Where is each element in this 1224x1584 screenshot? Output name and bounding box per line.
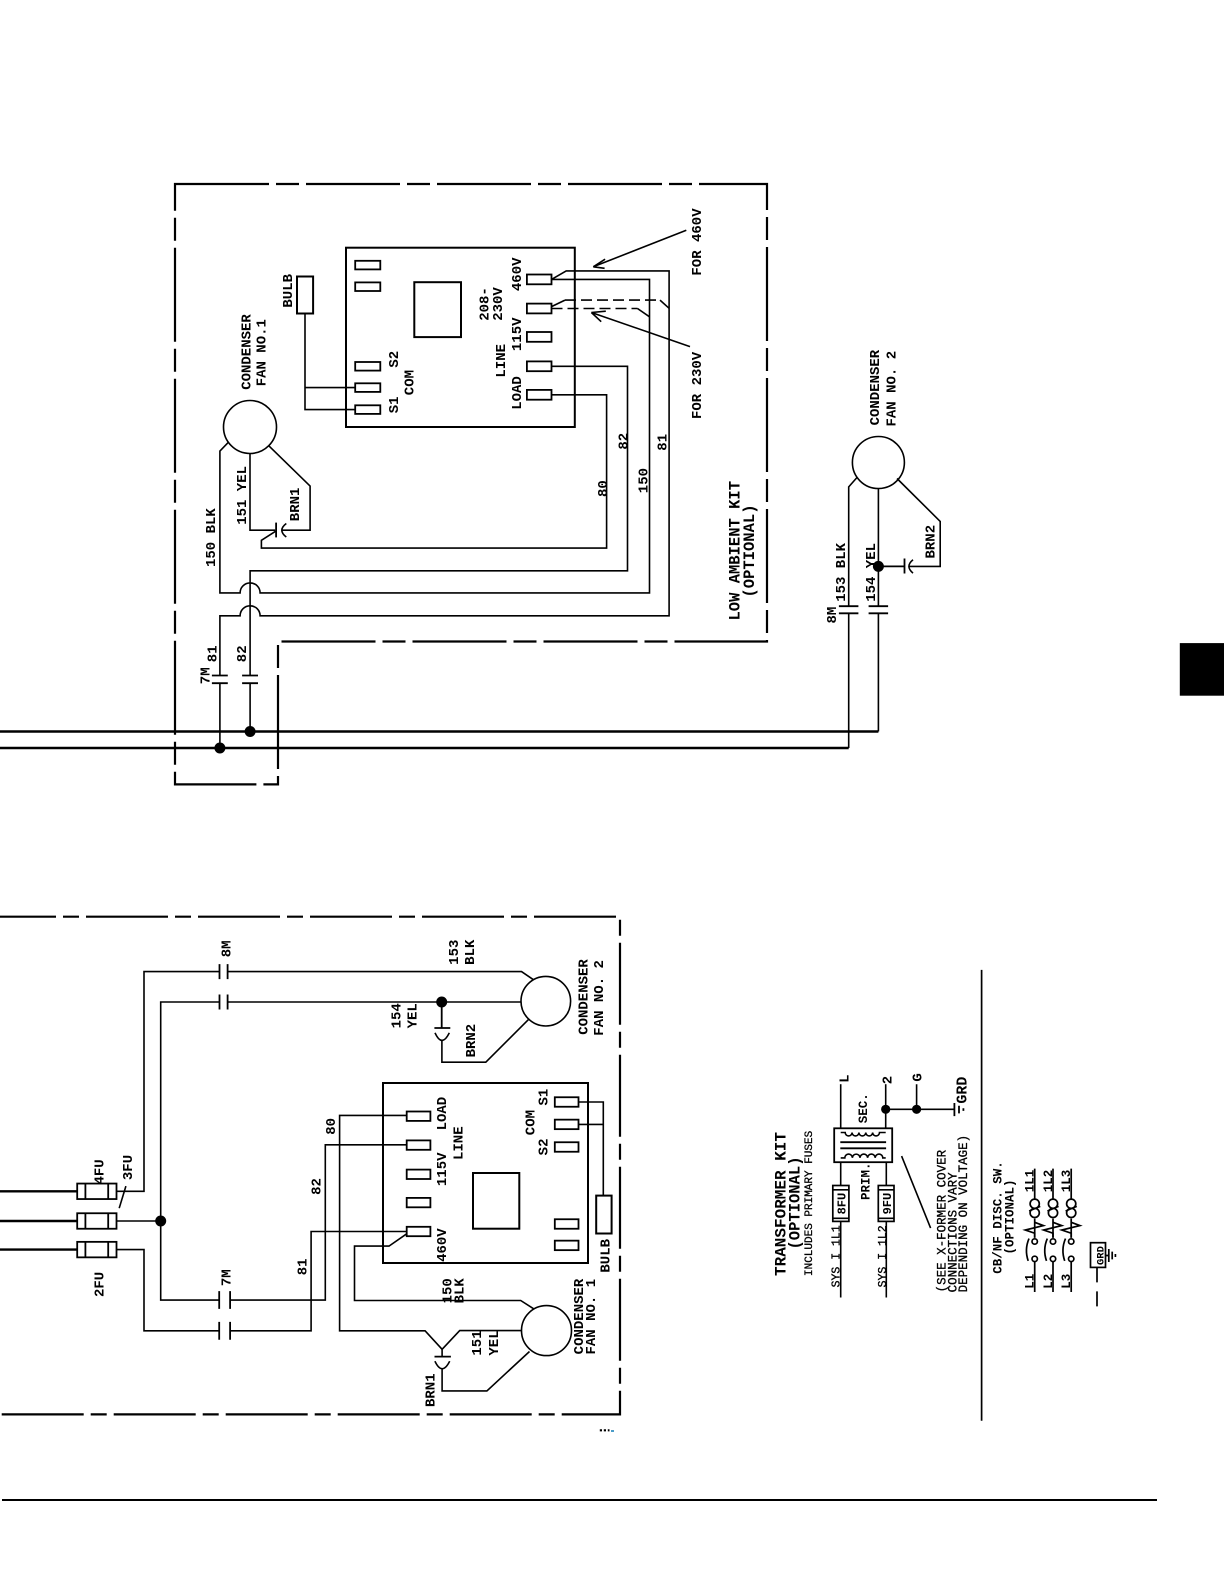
contact 7M-a plates (bottom): [219, 1291, 230, 1309]
capacitor BRN2 plate (top): [878, 559, 904, 574]
svg-text:BRN2: BRN2: [924, 525, 940, 559]
terminal 460V (bottom box): [407, 1227, 431, 1236]
wire 82 LINE terminal to 7M contact with riser: [250, 366, 627, 731]
GRD terminal box: [1091, 1243, 1106, 1268]
svg-text:153: 153: [447, 940, 463, 965]
terminal (unlabeled top-2): [355, 282, 380, 291]
svg-text:BRN2: BRN2: [464, 1024, 480, 1058]
svg-text:(OPTIONAL): (OPTIONAL): [786, 1156, 804, 1249]
svg-text:154: 154: [390, 1003, 406, 1028]
fuse 4FU: [77, 1184, 116, 1200]
svg-text:230V: 230V: [491, 287, 507, 321]
svg-text:82: 82: [235, 645, 251, 662]
contact 7M-b plates (bottom): [219, 1322, 230, 1340]
contact 7M-81 plates: [212, 676, 228, 684]
terminal S1 (top box): [355, 405, 380, 414]
svg-text:151: 151: [470, 1330, 486, 1355]
bottom rule: [2, 1499, 1157, 1501]
svg-text:FOR 460V: FOR 460V: [690, 208, 706, 276]
terminal 208-230V (bottom box): [407, 1198, 431, 1207]
svg-text:L1: L1: [1024, 1274, 1038, 1289]
svg-text:S2: S2: [387, 351, 403, 368]
svg-text:S2: S2: [537, 1138, 553, 1155]
terminal S2 (top box): [355, 362, 380, 371]
svg-text:4FU: 4FU: [93, 1159, 109, 1184]
terminal 115V (top box): [527, 332, 552, 342]
terminal 208-230V (top box): [527, 304, 552, 314]
svg-text:FOR 230V: FOR 230V: [690, 351, 706, 419]
feed wire L2: [0, 1220, 77, 1222]
svg-text:CONDENSER: CONDENSER: [239, 314, 255, 390]
wire primary 1L1: [840, 1162, 842, 1297]
capacitor BRN1 curved plate (bottom): [435, 1361, 450, 1369]
svg-text:81: 81: [296, 1258, 312, 1275]
svg-text:S1: S1: [537, 1089, 553, 1106]
svg-text:2: 2: [881, 1076, 897, 1084]
svg-text:151 YEL: 151 YEL: [235, 466, 251, 525]
junction dot 3FU: [155, 1216, 166, 1227]
capacitor BRN2 curved plate (bottom): [435, 1033, 449, 1041]
terminal COM (bottom box): [555, 1120, 579, 1130]
low ambient kit dashed enclosure: [175, 184, 767, 784]
svg-text:(OPTIONAL): (OPTIONAL): [741, 504, 759, 597]
wire 2 secondary with dot: [885, 1084, 887, 1128]
svg-text:9FU: 9FU: [881, 1193, 895, 1215]
svg-text:LOAD: LOAD: [510, 376, 526, 410]
GRD earth symbol: [1106, 1249, 1116, 1262]
svg-text:FAN NO.1: FAN NO.1: [254, 319, 270, 386]
bulb (bottom): [596, 1196, 611, 1234]
fuse 8FU: [833, 1186, 849, 1222]
wire primary 1L2: [885, 1162, 887, 1297]
page tab marker: [1180, 643, 1224, 696]
condenser fan no.2 motor (top): [852, 437, 904, 489]
wire 80 LOAD terminal to capacitor junction: [261, 395, 606, 548]
terminal unlabeled-2 (bottom box): [555, 1241, 579, 1251]
svg-text:SYS I 1L2: SYS I 1L2: [877, 1225, 890, 1287]
svg-text:YEL: YEL: [406, 1003, 422, 1028]
junction dot 154-BRN2: [873, 561, 884, 572]
leader 3FU: [119, 1186, 126, 1208]
print artifact marks: [600, 1429, 610, 1431]
wire 4FU to 8M contact to fan2 BLK: [117, 972, 534, 1192]
wire 80 LOAD to BRN1 capacitor (bottom): [340, 1115, 443, 1349]
transformer T1 core box: [834, 1128, 892, 1162]
wire BRN1 capacitor to fan1 (bottom): [442, 1352, 529, 1391]
svg-text:460V: 460V: [510, 257, 526, 291]
fan speed control box (bottom): [383, 1083, 588, 1263]
svg-text:460V: 460V: [435, 1228, 451, 1262]
arrow FOR 460V: [593, 230, 686, 267]
wire dot to G and ground: [886, 1084, 955, 1109]
svg-text:1L2: 1L2: [1042, 1170, 1056, 1193]
feed wire L1: [0, 1190, 77, 1192]
fan speed control box (top): [346, 248, 575, 427]
disconnect pole L1/1L1: [1034, 1169, 1036, 1292]
svg-text:82: 82: [310, 1178, 326, 1195]
svg-text:BRN1: BRN1: [424, 1373, 440, 1407]
svg-text:L2: L2: [1042, 1274, 1056, 1289]
svg-text:(OPTIONAL): (OPTIONAL): [1003, 1179, 1017, 1254]
svg-text:7M: 7M: [219, 1269, 235, 1286]
svg-text:154 YEL: 154 YEL: [864, 543, 880, 602]
svg-text:1L1: 1L1: [1024, 1170, 1038, 1193]
svg-text:1L3: 1L3: [1060, 1170, 1074, 1193]
svg-text:CONDENSER: CONDENSER: [868, 349, 884, 425]
svg-text:8FU: 8FU: [836, 1193, 850, 1215]
wire BRN2 capacitor to fan2 (bottom): [442, 1019, 529, 1062]
terminal S2 (bottom box): [555, 1142, 579, 1152]
terminal 460V (top box): [527, 275, 552, 285]
wire 154 YEL fan2 to upper bus: [877, 489, 879, 732]
for-230V dashed alternate wire to 150: [552, 308, 638, 310]
terminal LOAD (top box): [527, 390, 552, 400]
wire 151 YEL fan1 to BRN1 capacitor (bottom): [442, 1331, 521, 1357]
svg-text:G: G: [911, 1073, 927, 1081]
terminal (unlabeled top-1): [355, 261, 380, 270]
capacitor BRN1 curved plate (top): [282, 524, 287, 538]
wire 153 BLK fan2 to lower bus: [849, 477, 857, 748]
svg-text:81: 81: [205, 645, 221, 662]
svg-text:GRD: GRD: [954, 1077, 971, 1104]
svg-text:BULB: BULB: [281, 273, 297, 307]
capacitor BRN2 curved plate (top): [909, 560, 913, 573]
svg-text:81: 81: [656, 434, 672, 451]
fuse 9FU: [878, 1186, 894, 1222]
svg-text:150: 150: [637, 468, 653, 493]
svg-text:SYS I 1L1: SYS I 1L1: [831, 1225, 844, 1287]
condenser fan no.1 motor (top): [224, 401, 277, 454]
transformer primary winding: [841, 1154, 886, 1158]
for-460V dashed alternate wire to 81: [552, 300, 566, 307]
svg-text:YEL: YEL: [487, 1330, 503, 1355]
contact 8M-154 plates (top): [869, 606, 889, 613]
svg-text:DEPENDING ON VOLTAGE): DEPENDING ON VOLTAGE): [957, 1135, 971, 1293]
fuse 3FU: [77, 1213, 116, 1229]
svg-text:115V: 115V: [510, 317, 526, 351]
svg-text:PRIM.: PRIM.: [860, 1162, 874, 1200]
main unit dashed enclosure: [0, 917, 620, 1415]
svg-text:L: L: [838, 1074, 854, 1082]
wire S1/COM to bulb (bottom): [579, 1102, 604, 1196]
capacitor BRN2 plate (bottom): [434, 1002, 450, 1028]
contact 7M-82 plates: [242, 676, 258, 684]
feed wire L3: [0, 1248, 77, 1250]
GRD dashed wire: [1096, 1267, 1098, 1312]
junction dot 81-lower bus: [214, 743, 225, 754]
contact 8M-a plates (bottom): [220, 964, 228, 979]
svg-text:80: 80: [596, 480, 612, 497]
disconnect pole L3/1L3: [1070, 1169, 1072, 1292]
svg-text:S1: S1: [387, 396, 403, 413]
svg-text:LINE: LINE: [494, 344, 510, 378]
svg-text:FAN NO. 1: FAN NO. 1: [584, 1279, 600, 1355]
wire L secondary: [840, 1084, 842, 1128]
arrow FOR 230V: [591, 313, 690, 347]
svg-text:8M: 8M: [825, 607, 841, 624]
wire BRN1 capacitor to fan1: [269, 446, 310, 531]
transformer core lines: [840, 1142, 886, 1148]
separator line: [981, 970, 983, 1421]
svg-text:COM: COM: [524, 1110, 540, 1135]
leader x-former note: [902, 1156, 931, 1228]
svg-text:153 BLK: 153 BLK: [834, 542, 850, 601]
terminal LOAD (bottom box): [407, 1112, 431, 1121]
svg-text:COM: COM: [402, 370, 418, 395]
terminal LINE (bottom box): [407, 1140, 431, 1149]
lower bus wire: [0, 747, 849, 749]
svg-text:FAN NO. 2: FAN NO. 2: [885, 351, 901, 427]
terminal 115V (bottom box): [407, 1170, 431, 1179]
junction dot 154-BRN2 (bottom): [436, 997, 447, 1008]
svg-text:BULB: BULB: [598, 1238, 614, 1272]
svg-text:LINE: LINE: [451, 1126, 467, 1160]
svg-text:CONDENSER: CONDENSER: [577, 959, 593, 1035]
wire 3FU to 8M contact to fan2 YEL: [117, 1002, 521, 1221]
wire 150 BLK fan1 to 460V terminal with hop: [220, 279, 650, 593]
contact 8M-b plates (bottom): [220, 995, 228, 1010]
svg-text:INCLUDES PRIMARY FUSES: INCLUDES PRIMARY FUSES: [804, 1130, 816, 1276]
svg-text:8M: 8M: [219, 940, 235, 957]
wire 81 2FU to 7M to 460V terminal: [117, 1232, 407, 1331]
terminal S1 (bottom box): [555, 1097, 579, 1107]
svg-text:150 BLK: 150 BLK: [204, 508, 220, 567]
capacitor BRN1 plate (bottom): [435, 1356, 451, 1358]
svg-text:115V: 115V: [435, 1152, 451, 1186]
svg-text:LOAD: LOAD: [435, 1097, 451, 1131]
wire bulb to S1/COM terminals: [305, 314, 355, 410]
bulb (top): [297, 277, 313, 314]
wire 150 BLK 460V terminal to fan1 (bottom): [355, 1234, 534, 1309]
control box inner square (top): [414, 282, 461, 337]
capacitor BRN1 plate (top): [275, 523, 277, 538]
terminal LINE (top box): [527, 361, 552, 371]
terminal unlabeled-1 (bottom box): [555, 1219, 579, 1229]
wire 151 YEL fan1 to run capacitor: [250, 454, 275, 531]
svg-text:2FU: 2FU: [93, 1272, 109, 1297]
svg-text:SEC.: SEC.: [857, 1093, 871, 1123]
svg-text:BLK: BLK: [463, 939, 479, 965]
svg-text:7M: 7M: [198, 667, 214, 684]
earth ground symbol: [954, 1103, 963, 1116]
wire 82 3FU junction to 7M to LINE terminal: [161, 1145, 407, 1300]
svg-text:3FU: 3FU: [121, 1155, 137, 1180]
wire BRN2 capacitor to fan2: [897, 479, 940, 567]
svg-text:80: 80: [324, 1118, 340, 1135]
junction dot 82-upper bus: [245, 726, 256, 737]
contact 8M-153 plates (top): [839, 606, 859, 613]
wire 81 460V terminal to 7M contact with hop: [220, 271, 669, 748]
svg-text:FAN NO. 2: FAN NO. 2: [592, 960, 608, 1036]
upper bus wire: [0, 730, 878, 732]
disconnect pole L2/1L2: [1052, 1169, 1054, 1292]
svg-text:BRN1: BRN1: [288, 488, 304, 522]
control box inner square (bottom): [473, 1173, 519, 1229]
svg-text:82: 82: [617, 433, 633, 450]
transformer secondary winding: [841, 1133, 886, 1136]
svg-text:L3: L3: [1060, 1274, 1074, 1289]
condenser fan no.1 motor (bottom): [522, 1306, 572, 1356]
fuse 2FU: [77, 1242, 116, 1258]
svg-text:BLK: BLK: [453, 1278, 469, 1304]
terminal COM (top box): [355, 383, 380, 392]
condenser fan no.2 motor (bottom): [521, 976, 571, 1026]
